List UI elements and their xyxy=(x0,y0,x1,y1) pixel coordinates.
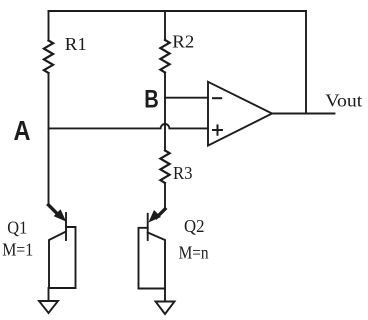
svg-text:Vout: Vout xyxy=(325,91,362,111)
svg-text:A: A xyxy=(14,115,31,146)
ground below Q1 xyxy=(39,288,58,313)
svg-text:R3: R3 xyxy=(173,163,193,183)
wire node A to op-amp non-inverting input (hop over vertical) xyxy=(49,124,209,128)
transistor Q2 xyxy=(139,209,166,289)
wire R2 bottom through node B to R3 xyxy=(164,73,166,151)
svg-text:Q2: Q2 xyxy=(184,216,205,236)
wire R3 to Q2 emitter xyxy=(164,183,166,209)
svg-text:Q1: Q1 xyxy=(7,218,27,238)
svg-text:R1: R1 xyxy=(65,34,87,54)
ground below Q2 xyxy=(156,289,175,315)
svg-text:R2: R2 xyxy=(172,32,194,52)
resistor R2 xyxy=(160,11,169,73)
resistor R1 xyxy=(44,11,53,73)
wire feedback from output to top rail xyxy=(305,11,307,114)
wire top supply rail xyxy=(49,10,307,12)
resistor R3 xyxy=(160,151,169,183)
wire left vertical R1 to Q1 xyxy=(48,73,50,205)
transistor Q1 xyxy=(49,205,76,288)
wire node B to op-amp inverting input xyxy=(165,97,208,99)
svg-text:M=1: M=1 xyxy=(2,239,33,259)
wire op-amp output to Vout xyxy=(272,113,335,115)
op-amp U1 xyxy=(208,82,272,146)
svg-text:B: B xyxy=(144,86,159,114)
svg-text:M=n: M=n xyxy=(179,243,209,263)
